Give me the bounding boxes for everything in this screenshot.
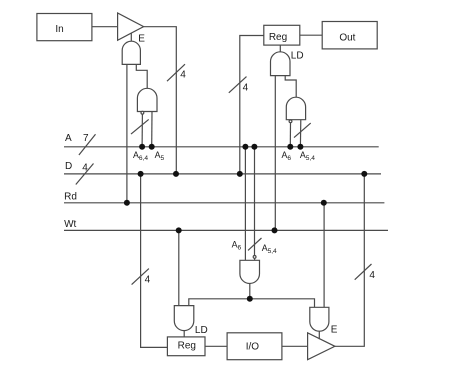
svg-text:I/O: I/O bbox=[246, 341, 260, 352]
svg-text:LD: LD bbox=[195, 325, 208, 336]
svg-text:4: 4 bbox=[82, 162, 88, 173]
svg-text:7: 7 bbox=[83, 133, 89, 144]
svg-text:Reg: Reg bbox=[178, 340, 196, 351]
svg-text:D: D bbox=[65, 161, 72, 172]
svg-text:Reg: Reg bbox=[269, 32, 287, 43]
svg-text:4: 4 bbox=[243, 83, 249, 94]
svg-text:LD: LD bbox=[291, 51, 304, 62]
svg-text:E: E bbox=[138, 33, 145, 44]
svg-text:E: E bbox=[331, 324, 338, 335]
svg-text:4: 4 bbox=[369, 270, 375, 281]
svg-text:Wt: Wt bbox=[64, 219, 76, 230]
svg-text:A: A bbox=[65, 133, 72, 144]
svg-text:In: In bbox=[55, 24, 63, 35]
svg-text:Out: Out bbox=[339, 33, 355, 44]
svg-text:Rd: Rd bbox=[64, 191, 77, 202]
svg-text:4: 4 bbox=[145, 275, 151, 286]
svg-text:4: 4 bbox=[180, 70, 186, 81]
